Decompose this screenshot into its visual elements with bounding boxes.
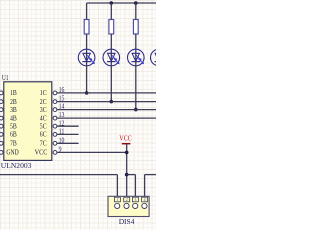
input bubble pin 8 (left edge)	[0, 151, 3, 155]
resistor R3	[133, 20, 138, 35]
DIS4 hole pin 3	[133, 203, 138, 208]
DIS4 pad pin 4	[142, 197, 148, 202]
junction LED2/row wire	[110, 100, 114, 104]
wire R1 to LED1	[86, 34, 88, 49]
svg-text:3: 3	[134, 198, 136, 202]
junction VCC/pin9 wire	[125, 151, 129, 155]
output bubble pin 12	[53, 124, 57, 128]
wire LED1 cathode down	[86, 66, 88, 93]
wire pin 10 net	[57, 142, 79, 144]
input bubble pin 7 (left edge)	[0, 141, 3, 145]
LED D2	[103, 49, 120, 66]
wire drop to DIS4 pin3	[134, 175, 136, 198]
DIS4 pad pin 1	[114, 197, 120, 202]
wire pin 12 net	[57, 125, 79, 127]
svg-text:VCC: VCC	[35, 148, 48, 157]
DIS4 pad pin 2	[124, 197, 130, 202]
wire bottom net to DIS4 pin1	[0, 174, 117, 176]
junction VCC/pin2-3 wire	[125, 173, 129, 177]
svg-text:2: 2	[126, 198, 128, 202]
input bubble pin 5 (left edge)	[0, 124, 3, 128]
svg-text:1: 1	[116, 198, 118, 202]
junction rail/R3	[134, 1, 138, 5]
wire pin 11 net	[57, 133, 79, 135]
junction LED3/row wire	[134, 108, 138, 112]
input bubble pin 3 (left edge)	[0, 108, 3, 112]
LED D3	[128, 49, 145, 66]
connector DIS4 body	[108, 196, 149, 216]
wire VCC down to DIS4 pin2	[126, 144, 128, 198]
wire LED2 cathode down	[110, 66, 112, 102]
svg-text:4: 4	[144, 198, 146, 202]
wire VCC junction to pin3 corner	[127, 174, 136, 176]
input bubble pin 1 (left edge)	[0, 91, 3, 95]
input bubble pin 4 (left edge)	[0, 116, 3, 120]
output bubble pin 15	[53, 100, 57, 104]
output bubble pin 14	[53, 108, 57, 112]
wire LED3 cathode down	[135, 66, 137, 110]
wire pin 15 net	[57, 101, 156, 103]
resistor R1	[84, 20, 89, 35]
wire rail to R2	[110, 3, 112, 20]
VCC power bar	[122, 143, 131, 145]
DIS4 pad pin 3	[132, 197, 138, 202]
wire right net to DIS4 pin4	[145, 174, 156, 176]
svg-text:ULN2003: ULN2003	[1, 161, 32, 170]
DIS4 hole pin 4	[142, 203, 147, 208]
wire pin 9 net	[57, 151, 127, 153]
output bubble pin 10	[53, 141, 57, 145]
wire rail to R3	[135, 3, 137, 20]
input bubble pin 2 (left edge)	[0, 100, 3, 104]
output bubble pin 11	[53, 133, 57, 137]
wire R3 to LED3	[135, 34, 137, 49]
DIS4 hole pin 2	[124, 203, 129, 208]
svg-text:GND: GND	[6, 148, 19, 157]
wire R2 to LED2	[110, 34, 112, 49]
svg-text:6B: 6B	[10, 130, 17, 139]
svg-text:VCC: VCC	[119, 134, 132, 143]
output bubble pin 13	[53, 116, 57, 120]
svg-text:7B: 7B	[10, 139, 17, 148]
input bubble pin 6 (left edge)	[0, 133, 3, 137]
junction LED1/row wire	[85, 91, 89, 95]
wire rail corner down to R1	[86, 3, 88, 20]
resistor R2	[109, 20, 114, 35]
wire drop to DIS4 pin1	[116, 175, 118, 198]
wire drop to DIS4 pin4	[144, 175, 146, 198]
DIS4 hole pin 1	[115, 203, 120, 208]
LED D4	[151, 49, 168, 66]
svg-text:7C: 7C	[40, 139, 47, 148]
svg-text:1B: 1B	[10, 88, 17, 97]
svg-text:1C: 1C	[40, 88, 47, 97]
LED D1	[78, 49, 95, 66]
output bubble pin 16	[53, 91, 57, 95]
wire pin 16 net	[57, 92, 156, 94]
junction rail/R2	[110, 1, 114, 5]
wire pin 13 net	[57, 117, 156, 119]
op IC U1 ULN2003 body	[4, 82, 52, 161]
output bubble pin 9	[53, 151, 57, 155]
svg-text:6C: 6C	[40, 130, 47, 139]
wire top VCC rail	[87, 2, 156, 4]
wire pin 14 net	[57, 109, 156, 111]
svg-text:DIS4: DIS4	[119, 217, 135, 226]
svg-text:U1: U1	[2, 73, 9, 82]
